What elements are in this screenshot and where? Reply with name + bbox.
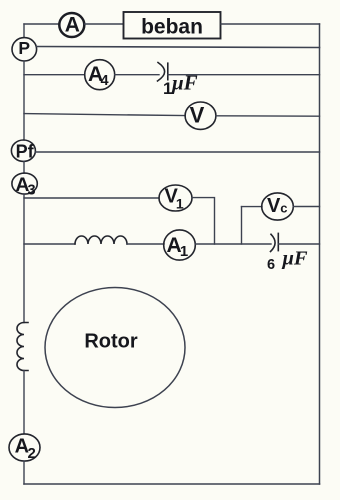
wire: A to beban box (85, 23, 124, 25)
svg-text:V: V (267, 195, 281, 217)
wire: Vc to right bus (293, 206, 319, 208)
svg-text:1: 1 (176, 195, 184, 211)
svg-text:1: 1 (180, 243, 188, 260)
inductor L2 rotor coil on left bus (17, 323, 28, 371)
ammeter A4 (85, 60, 115, 90)
wire: left bus coil to A2 (23, 371, 25, 434)
wire: right bus (319, 24, 321, 484)
inductor L1 stator coil (75, 236, 127, 244)
svg-text:2: 2 (28, 445, 36, 462)
wire: corner to Vc (242, 206, 263, 208)
svg-text:c: c (280, 201, 287, 216)
capacitor C1 curved plate (158, 63, 165, 82)
wire: A1 to capacitor C2 (195, 243, 271, 245)
capacitor C1 straight plate (167, 63, 169, 79)
ammeter A (59, 13, 84, 37)
svg-text:6: 6 (267, 257, 275, 273)
load box beban (124, 12, 221, 39)
wire: C2 to right bus (278, 243, 319, 245)
wire: left bus A2 to bottom corner (23, 461, 25, 484)
power factor meter Pf (11, 140, 35, 162)
capacitor C2 straight plate (277, 233, 279, 250)
svg-text:V: V (190, 102, 205, 127)
svg-text:μF: μF (282, 248, 308, 270)
wire: coil to A1 (127, 243, 164, 245)
wire: A1 row from bus to coil (24, 243, 75, 245)
label 1uF (163, 71, 198, 98)
svg-text:Pf: Pf (16, 142, 35, 162)
wattmeter P (12, 38, 37, 61)
svg-text:Rotor: Rotor (84, 331, 138, 353)
voltmeter V1 (159, 185, 192, 211)
svg-text:3: 3 (27, 183, 35, 199)
wire: bottom row (24, 483, 320, 485)
wire: top row corner to ammeter A (24, 23, 60, 25)
ammeter A2 (9, 434, 40, 462)
voltmeter V (185, 102, 216, 129)
wire: Pf row to right bus (35, 151, 319, 153)
wire: left bus Pf to A3 (23, 161, 25, 173)
svg-text:A: A (65, 14, 80, 37)
wire: junction up to Vc row (241, 207, 243, 244)
voltmeter Vc (262, 193, 294, 220)
wire: V row from bus (24, 114, 185, 116)
wire: V to right bus (216, 115, 320, 117)
label 6uF (267, 248, 308, 273)
wire: A4 row from bus (24, 74, 85, 76)
rotor (45, 288, 185, 408)
capacitor C2 curved plate (271, 234, 276, 251)
ammeter A3 (12, 173, 37, 199)
wire: C1 to right bus (168, 74, 320, 76)
wire: top-left corner stub down to P (23, 24, 25, 37)
wire: V1 branch from bus (24, 197, 159, 199)
svg-text:4: 4 (100, 73, 108, 89)
ammeter A1 (164, 230, 196, 260)
wire: V1 right corner down to A1 row (192, 198, 215, 244)
wire: left bus P to Pf (23, 61, 25, 140)
wire: beban to right bus (221, 23, 320, 25)
svg-text:P: P (18, 38, 30, 58)
wire: left bus A3 down to rotor coil (23, 194, 25, 322)
wire: P row to right bus (37, 47, 320, 48)
wire: A4 to capacitor C1 (115, 74, 159, 76)
svg-text:beban: beban (141, 16, 203, 39)
